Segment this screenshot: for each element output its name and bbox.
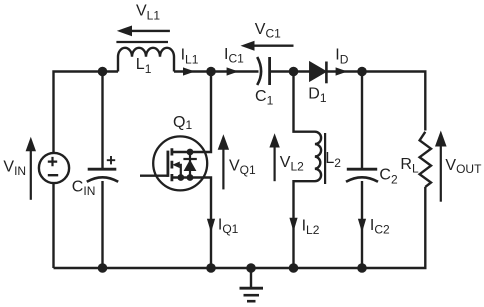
svg-text:Q1: Q1 [173,114,192,132]
transistor Q1 circle [153,136,207,190]
wire D1 to node C [326,70,362,72]
Q1 body diode triangle [184,160,197,171]
wire bottom rail [54,267,363,269]
wire C1 to node B [271,70,294,72]
Q1 internal dot drain [187,149,194,156]
svg-text:IQ1: IQ1 [218,217,239,237]
wire node C to right corner and down to RL [362,72,425,131]
capacitor C2 straight plate [347,168,377,171]
arrow IQ1 head [207,219,215,233]
svg-text:VIN: VIN [3,159,26,179]
VIN minus sign [48,174,58,176]
node C dot (D1 / C2 / out) [357,67,367,77]
arrow VOUT [440,146,442,202]
Q1 body diode cathode bar [183,158,196,160]
svg-text:ID: ID [335,46,348,66]
svg-text:C1: C1 [255,88,274,108]
arrow VQ1 [222,149,224,190]
svg-text:VC1: VC1 [255,21,281,41]
arrow IC2 head [358,219,366,233]
svg-text:VL1: VL1 [136,2,160,22]
svg-text:L1: L1 [136,56,152,76]
Q1 internal dot body [177,174,184,181]
arrow VIN [30,151,32,200]
node B dot (C1 / D1 / L2) [289,67,299,77]
svg-text:VOUT: VOUT [445,157,482,176]
wire C2 branch bottom [361,181,363,268]
arrow IL2 head [289,218,297,232]
svg-text:IC1: IC1 [224,46,244,66]
svg-text:C2: C2 [379,167,398,187]
inductor L1 [118,48,174,72]
wire C2 branch top [361,72,363,170]
arrow VC1 [254,45,294,47]
node dot bottom ground [246,263,256,273]
svg-text:IC2: IC2 [370,217,390,237]
wire L1 to C1 [174,70,259,72]
CIN plus sign [107,156,115,164]
Q1 body diode line [189,152,191,178]
capacitor C1 curved plate [257,57,261,85]
Q1 drain wire (node A down to channel) [172,72,211,153]
L2 core bar [324,133,326,184]
arrow ID head [336,67,348,75]
Q1 body arrow [179,165,181,178]
Q1 gate lead [140,174,168,176]
diode D1 triangle [310,62,326,81]
svg-text:D1: D1 [308,85,327,104]
capacitor CIN straight plate [88,168,117,171]
wire L2 branch [294,72,322,269]
voltage source VIN circle [39,153,69,183]
node A dot (drain / L1 / C1) [206,67,216,77]
wire top rail left (VIN top to L1 left step) [54,72,119,154]
svg-text:CIN: CIN [72,179,96,199]
svg-text:RL: RL [400,156,419,176]
node dot bottom L2 [289,263,299,273]
Q1 internal dot source [187,174,194,181]
svg-text:VQ1: VQ1 [229,158,256,178]
capacitor C2 curved plate [346,177,378,182]
VIN plus sign [48,157,57,166]
capacitor C1 straight plate [268,57,271,85]
node dot top CIN [98,67,108,77]
node dot bottom C2 [357,263,367,273]
svg-text:L2: L2 [325,150,341,170]
diode D1 cathode bar [325,62,328,84]
wire VIN top lead [52,183,54,268]
wire RL to bottom right corner [362,187,425,268]
Q1 gate bar [166,151,169,177]
resistor RL zigzag [420,132,431,187]
arrow VL2 [274,147,276,182]
arrow IL1 head [183,67,195,75]
Q1 source wire (channel to bottom rail) [172,178,211,269]
Q1 channel segments [170,148,173,181]
svg-text:VL2: VL2 [280,154,304,174]
ground symbol [250,268,252,288]
arrow IC1 head [227,67,239,75]
arrow VL1 [131,30,170,32]
capacitor CIN curved plate [87,177,118,182]
L1 core bar [116,41,168,43]
wire CIN branch bottom [101,181,103,268]
svg-text:IL2: IL2 [302,217,320,237]
wire CIN branch top [101,72,103,170]
svg-text:IL1: IL1 [181,47,199,67]
wire node B to D1 [294,70,311,72]
node dot bottom Q1 source [206,263,216,273]
node dot bottom CIN [98,263,108,273]
